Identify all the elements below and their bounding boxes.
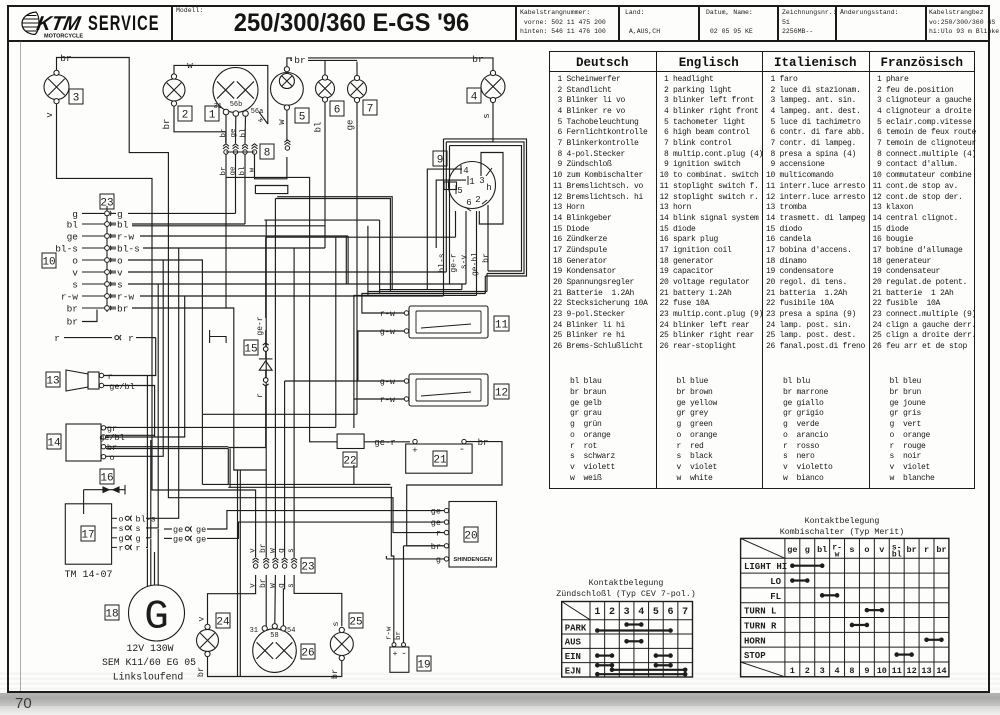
svg-text:bl-s: bl-s [136, 514, 156, 524]
wire coil to generator d [157, 529, 159, 586]
stop contacts sbl-br [894, 652, 914, 657]
wire r coil up [146, 376, 147, 548]
wire br col to rail [265, 575, 267, 627]
svg-text:r: r [54, 333, 60, 344]
svg-text:s-v: s-v [460, 255, 469, 270]
connector 23 9-pol ladder [105, 206, 111, 312]
label box 6 [330, 101, 344, 116]
coil terminal s-s [112, 527, 117, 529]
svg-text:Kombischalter (Typ Merit): Kombischalter (Typ Merit) [780, 527, 904, 537]
turn r contacts s-o [850, 623, 870, 628]
svg-text:SHINDENGEN: SHINDENGEN [453, 557, 492, 563]
wire pair left corner up b [229, 449, 231, 488]
label box 7 [363, 100, 377, 115]
label box 25 [349, 613, 363, 628]
wire loop drop b [486, 274, 488, 292]
ejn contacts 1-2 [595, 663, 614, 668]
wire pin31 [225, 115, 227, 143]
svg-text:r-w: r-w [61, 292, 78, 303]
svg-text:17: 17 [81, 529, 94, 541]
svg-text:7: 7 [682, 607, 688, 618]
wire w lamp2 to headlight [174, 65, 268, 124]
wire r conn23 inline [152, 337, 156, 339]
label box 9 [433, 151, 447, 166]
wire bundle v1 down [443, 139, 445, 296]
svg-text:2: 2 [475, 195, 480, 205]
fl contacts bl-rw [820, 593, 840, 598]
lamp 6 high beam control [316, 79, 335, 98]
svg-text:4: 4 [471, 91, 478, 103]
wire ge-r fuse to battery [364, 441, 410, 443]
park contacts 3-4 [624, 622, 643, 627]
svg-text:bl: bl [817, 545, 827, 555]
svg-text:7: 7 [367, 103, 374, 115]
svg-text:bl: bl [117, 220, 129, 231]
svg-text:TM 14-07: TM 14-07 [64, 570, 112, 581]
label box 23 front [100, 194, 114, 209]
svg-text:-: - [459, 445, 465, 456]
svg-text:12V 130W: 12V 130W [126, 643, 173, 654]
scan artifact vertical line left [20, 41, 21, 691]
light hi contacts ge-bl [790, 563, 824, 568]
wire ge2 stub [164, 537, 172, 539]
svg-text:13: 13 [46, 375, 59, 387]
wire coil to generator b [150, 539, 152, 586]
voltage regulator 20 [449, 502, 497, 568]
svg-text:54: 54 [287, 627, 295, 635]
svg-text:br: br [162, 119, 172, 130]
wire bl-s conn23 left stub [82, 247, 104, 249]
svg-text:br: br [196, 667, 206, 677]
svg-text:o: o [109, 453, 114, 463]
svg-text:g: g [119, 534, 124, 544]
wire r-w jog down b [347, 236, 349, 284]
svg-text:br: br [220, 166, 228, 175]
wire g reg from pair [385, 556, 387, 559]
wire br row conn23 [132, 308, 266, 557]
blinker left rear 24 [197, 629, 219, 651]
wire bundle v3 down [449, 146, 451, 284]
wire r-w jog down a [345, 236, 347, 284]
svg-text:r-w: r-w [380, 395, 396, 405]
svg-text:10: 10 [877, 666, 887, 676]
svg-text:o: o [864, 545, 869, 555]
wire pair down to cap [391, 487, 394, 643]
svg-text:g: g [117, 209, 123, 220]
wire s col to lamp25 [294, 575, 342, 626]
pin w diagonal [259, 112, 268, 124]
wire br conn23 right stub [110, 307, 116, 309]
lo contacts ge-g [790, 578, 810, 583]
svg-text:w: w [277, 119, 287, 125]
wire o row conn23 [128, 260, 202, 414]
svg-text:20: 20 [464, 530, 477, 542]
lamp 4 blinker right front [481, 75, 505, 99]
svg-text:br: br [936, 545, 946, 555]
contact table ignition switch row labels [565, 623, 587, 676]
svg-text:ge/bl: ge/bl [109, 382, 135, 392]
wire bl conn23 right stub [110, 223, 116, 225]
label box 15 [244, 340, 258, 355]
label box 8 [260, 144, 274, 159]
svg-text:25: 25 [349, 616, 362, 628]
svg-text:g-w: g-w [380, 327, 396, 337]
label box 4 [467, 88, 481, 103]
svg-text:br: br [67, 317, 78, 328]
lamp 5 tachometer light [271, 73, 304, 106]
wire ge-bl switch9 [476, 211, 478, 295]
wire w connector8 to lamp5 [255, 154, 287, 178]
svg-text:14: 14 [47, 437, 61, 449]
svg-text:2: 2 [182, 109, 189, 121]
svg-text:br: br [482, 253, 491, 263]
coil terminal g-g [112, 537, 117, 539]
wire o conn23 left stub [82, 259, 104, 261]
wire s col rear [293, 248, 295, 557]
svg-text:AUS: AUS [565, 638, 582, 648]
label box 20 [464, 527, 478, 542]
svg-text:TURN L: TURN L [744, 607, 776, 617]
svg-text:r: r [107, 372, 112, 382]
svg-text:s: s [117, 280, 123, 291]
wire switch9 pin4 left [427, 169, 462, 290]
ground tab [210, 330, 227, 343]
wire ge1 to regulator [207, 511, 444, 529]
svg-text:22: 22 [343, 455, 356, 467]
wire ge/bl flasher right [155, 296, 185, 437]
svg-text:br: br [60, 53, 71, 64]
combination switch pin numbers [790, 666, 947, 676]
wire br rail feed top [234, 469, 238, 471]
svg-text:g: g [72, 209, 78, 220]
wire bundle bl row net [367, 226, 369, 296]
svg-text:5: 5 [299, 111, 306, 123]
svg-text:br: br [67, 304, 78, 315]
stoplight switch front 11 [409, 306, 488, 338]
wire w col rear [274, 199, 276, 558]
wire br regulator row [404, 545, 445, 547]
label box 2 [178, 106, 192, 121]
svg-text:+: + [393, 650, 398, 659]
wire bundle row1 [380, 289, 462, 291]
svg-text:3: 3 [820, 666, 825, 676]
svg-text:PARK: PARK [565, 623, 587, 633]
svg-text:g: g [436, 555, 441, 565]
svg-text:h: h [486, 183, 491, 193]
wire w col to pin58 [274, 575, 277, 624]
svg-text:12: 12 [907, 666, 917, 676]
svg-text:s: s [136, 524, 141, 534]
wire g conn23 right stub [110, 212, 116, 214]
label box 16 [100, 469, 114, 484]
svg-text:18: 18 [105, 608, 118, 620]
wire ge conn23 left stub [82, 235, 104, 237]
svg-text:r: r [256, 393, 265, 398]
svg-text:13: 13 [921, 666, 931, 676]
wire ge-r branch down [335, 237, 337, 427]
wire bundle b1 [444, 139, 527, 276]
pin 56a [243, 111, 249, 117]
svg-text:Kontaktbelegung: Kontaktbelegung [589, 578, 664, 588]
wire pair horizontal a [228, 483, 390, 485]
label box 18 [105, 605, 119, 620]
svg-text:r-w: r-w [380, 309, 396, 319]
wire bundle row1 up [461, 284, 463, 290]
wire g col rear [284, 381, 286, 557]
svg-text:1: 1 [790, 666, 795, 676]
wire bundle b3 [450, 146, 522, 271]
svg-text:11: 11 [892, 666, 902, 676]
svg-text:23: 23 [100, 197, 113, 209]
label box 19 [417, 656, 431, 671]
svg-text:15: 15 [244, 343, 257, 355]
wire bl row conn23 [132, 223, 245, 225]
wire r-w conn23 right stub [110, 235, 116, 237]
svg-text:br: br [294, 55, 305, 66]
stoplight switch rear 12 [409, 374, 488, 406]
svg-text:4: 4 [463, 166, 468, 176]
wire bl conn23 left stub [82, 223, 104, 225]
scan shadow band bottom [0, 670, 1000, 693]
svg-text:bl-s: bl-s [55, 244, 78, 255]
svg-text:bl: bl [240, 128, 248, 138]
ein contacts 1-2 [595, 653, 614, 658]
svg-text:r: r [136, 543, 141, 553]
wire g regulator row [386, 558, 444, 560]
pin 54 lamp26 [281, 626, 286, 631]
svg-text:ge-r: ge-r [374, 438, 396, 448]
svg-text:g: g [278, 583, 287, 588]
svg-text:s: s [287, 583, 296, 588]
wire bl-s conn23 right stub [110, 247, 116, 249]
svg-text:5: 5 [457, 186, 462, 196]
wire r-w pair upper a [277, 197, 392, 290]
wire v conn23 right stub [110, 271, 116, 273]
svg-text:ge/bl: ge/bl [99, 433, 125, 443]
fuse 22 [337, 434, 364, 449]
label box 13 [46, 372, 60, 387]
svg-text:19: 19 [417, 659, 430, 671]
svg-text:bl-s: bl-s [438, 253, 447, 272]
wire r-w conn23 left stub [82, 295, 104, 297]
svg-text:6: 6 [466, 198, 471, 208]
label box 26 [301, 644, 315, 659]
label box 12 [494, 384, 509, 399]
svg-text:v: v [117, 268, 123, 279]
pin 31 [223, 109, 229, 115]
svg-text:G: G [144, 595, 169, 641]
wire br bus second [291, 58, 357, 61]
svg-text:STOP: STOP [744, 651, 766, 661]
combination switch row labels [744, 562, 787, 661]
svg-text:g: g [136, 534, 141, 544]
svg-text:12: 12 [495, 387, 508, 399]
wire pair left corner up a [227, 449, 229, 485]
wire br rail feed [238, 470, 241, 677]
label box 17 [81, 526, 95, 541]
wire v conn23 left stub [82, 271, 104, 273]
wire r-w conn23 right stub [110, 295, 116, 297]
svg-text:bl-s: bl-s [117, 244, 140, 255]
svg-text:r: r [128, 333, 134, 344]
coil terminal o-bl-s [112, 517, 117, 519]
coil terminal r-r [112, 546, 117, 548]
wire br rail [208, 656, 342, 677]
svg-text:ge-bl: ge-bl [471, 252, 480, 276]
svg-text:w: w [268, 583, 277, 588]
wire coil to generator a [146, 549, 148, 587]
wire bundle r-w switch12 [354, 295, 477, 399]
svg-text:TURN R: TURN R [744, 621, 777, 631]
headlight 1 [213, 68, 258, 113]
wire br lamp2 to connector8 [174, 106, 226, 143]
svg-text:s: s [119, 524, 124, 534]
svg-text:ge: ge [431, 507, 441, 517]
blinker right rear 25 [330, 633, 353, 656]
wire ge lamp7 down [356, 100, 358, 414]
wire br conn23 left stub [82, 307, 104, 309]
svg-text:31: 31 [250, 627, 258, 635]
svg-text:r: r [119, 543, 124, 553]
wire br switch9 [487, 205, 489, 271]
svg-text:SEM K11/60 EG 05: SEM K11/60 EG 05 [102, 657, 196, 668]
contact table combination switch grid [741, 538, 949, 676]
wire r diode down [265, 395, 267, 448]
aus contacts 3-4 [624, 639, 643, 644]
wire br lamp6 up [324, 60, 326, 76]
wire bundle v2 down [445, 142, 447, 272]
svg-text:4: 4 [835, 666, 840, 676]
svg-text:5: 5 [653, 607, 659, 618]
svg-text:3: 3 [479, 176, 484, 186]
wire s conn23 left stub [82, 283, 104, 285]
svg-text:6: 6 [668, 607, 674, 618]
ejn contacts 1-7 [595, 672, 687, 677]
svg-text:16: 16 [100, 472, 113, 484]
pin 31 lamp26 [262, 626, 267, 631]
label box 1 [205, 106, 219, 121]
svg-text:bl: bl [892, 551, 902, 560]
capacitor 19 [390, 647, 409, 672]
svg-text:v: v [72, 268, 78, 279]
wire g-w link 11 12 [358, 331, 406, 381]
svg-text:s: s [72, 280, 78, 291]
wire s lamp4 down [446, 102, 493, 142]
svg-text:26: 26 [301, 647, 314, 659]
ejn contacts 5-6 [654, 663, 673, 668]
svg-text:2: 2 [609, 607, 615, 618]
svg-text:v: v [197, 616, 207, 621]
svg-text:+: + [412, 446, 417, 456]
svg-text:br: br [220, 128, 228, 137]
wire switch9 pin3 loop [479, 153, 503, 225]
label box 10 [42, 253, 56, 268]
svg-text:24: 24 [216, 616, 230, 628]
wire s conn23 right stub [110, 283, 116, 285]
wire ge connector8 to g row [235, 154, 237, 213]
label box 14 [47, 434, 61, 449]
svg-text:8: 8 [849, 666, 854, 676]
svg-text:r-w: r-w [386, 626, 394, 640]
pin 58 lamp26 [272, 624, 277, 629]
svg-text:v: v [249, 583, 258, 588]
wire switch9 pin1 left [436, 180, 466, 248]
svg-text:ge: ge [173, 534, 183, 544]
wire o flasher [106, 260, 163, 456]
wire o flasher long [201, 414, 203, 484]
ignition switch 9 body [444, 162, 496, 209]
wire gr flasher [106, 426, 336, 428]
wire v rear to lamp24 [208, 575, 256, 625]
wire coil to generator c [154, 552, 156, 585]
wire ge-r diode top [265, 237, 267, 318]
wire r-w row2 conn23 [140, 295, 444, 297]
svg-text:58: 58 [270, 632, 278, 640]
svg-text:r-w: r-w [117, 292, 134, 303]
contact table ignition switch grid [562, 602, 693, 678]
svg-text:1: 1 [594, 607, 600, 618]
connector 23 rear crimp contacts [253, 558, 298, 568]
wire g conn23 left stub [82, 212, 104, 214]
wire g col to pin54 [283, 575, 284, 627]
svg-text:9: 9 [437, 154, 444, 166]
svg-text:2: 2 [805, 666, 810, 676]
wire r-w pair upper b [275, 199, 390, 292]
wire label br bus left [292, 53, 308, 64]
svg-text:LIGHT HI: LIGHT HI [744, 562, 787, 572]
svg-text:br: br [907, 545, 917, 555]
svg-text:HORN: HORN [744, 636, 766, 646]
wire br battery [407, 442, 502, 546]
svg-text:w: w [187, 60, 193, 71]
battery 21 [406, 444, 472, 473]
turn l contacts o-v [865, 608, 885, 613]
wire w lamp5 tail [286, 110, 288, 141]
svg-text:g: g [805, 545, 810, 555]
wire horizontal bus 414 [202, 413, 357, 415]
generator 18 [129, 585, 185, 641]
wire s coil up [146, 284, 158, 528]
svg-text:bl: bl [239, 166, 247, 176]
svg-text:r-w: r-w [117, 232, 134, 243]
label box 23 rear [301, 558, 315, 573]
svg-text:br: br [431, 542, 441, 552]
svg-text:w: w [268, 548, 277, 553]
svg-text:8: 8 [264, 147, 271, 159]
wire v row conn23 [128, 271, 446, 273]
wire g row conn23 [128, 212, 236, 214]
svg-text:br: br [259, 578, 268, 588]
svg-text:ge-r: ge-r [450, 253, 459, 272]
wire loop rect near conn23 rear [255, 186, 287, 194]
svg-text:9: 9 [864, 666, 869, 676]
svg-text:1: 1 [469, 177, 474, 187]
wire g coil up [146, 440, 151, 538]
svg-text:s: s [482, 113, 492, 118]
wire r-w row conn23 [140, 235, 348, 237]
blink signal system 14 [66, 424, 101, 461]
ejn contacts 2-7 [610, 668, 688, 673]
wire bundle g row net [379, 220, 381, 293]
wire bundle row2 [368, 291, 487, 293]
wire g regulator long [202, 483, 228, 485]
horn contacts r-br [924, 637, 944, 642]
wire ge-r bus to diode [266, 236, 456, 238]
svg-text:FL: FL [770, 592, 781, 602]
wire ge/bl flasher [106, 435, 155, 437]
contact table ignition switch column numbers [594, 607, 688, 618]
svg-text:31: 31 [214, 103, 222, 111]
